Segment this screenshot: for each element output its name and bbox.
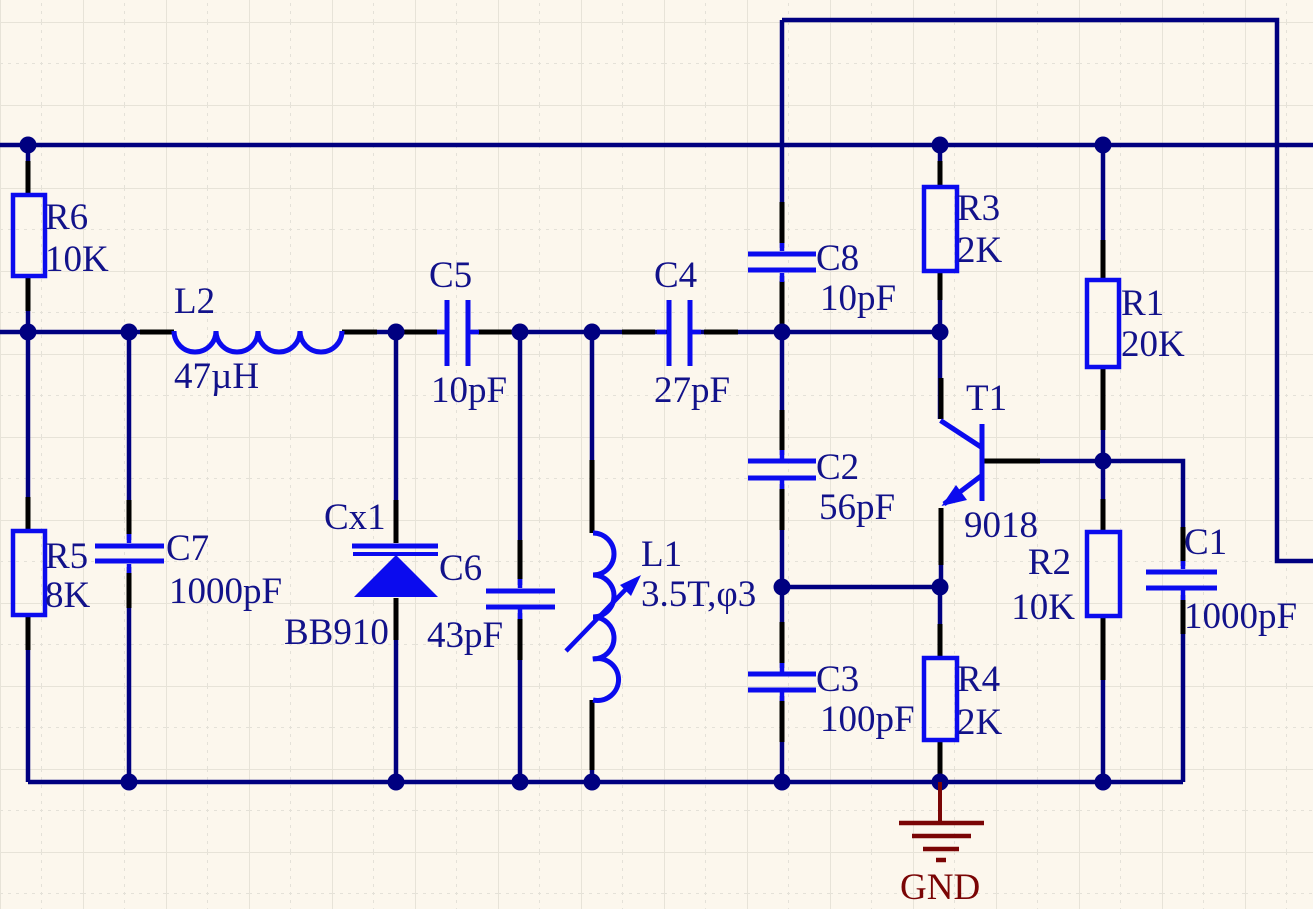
wire emitter row: [782, 585, 940, 590]
pin Cx1.2: [394, 598, 399, 640]
junction node (396,332): [388, 324, 405, 341]
transistor T1: [941, 378, 1039, 546]
resistor R4: [924, 658, 1003, 743]
pin L2.2: [342, 330, 377, 335]
pin R6.1: [26, 161, 31, 195]
pin C8.1: [780, 202, 785, 243]
junction node (129,332): [121, 324, 138, 341]
pin Cx1.1: [394, 500, 399, 543]
svg-text:BB910: BB910: [284, 612, 389, 653]
pin T1 emitter: [939, 508, 944, 565]
svg-text:C6: C6: [439, 548, 482, 589]
resistor R1: [1087, 280, 1185, 367]
pin L1.2: [590, 700, 595, 770]
svg-text:3.5T,φ3: 3.5T,φ3: [641, 574, 756, 615]
pin C3.2: [780, 701, 785, 742]
junction node (28,145): [20, 137, 37, 154]
svg-text:100pF: 100pF: [820, 699, 915, 740]
junction node (520,332): [512, 324, 529, 341]
pin C1.1: [1181, 527, 1186, 561]
svg-text:8K: 8K: [45, 575, 91, 616]
pin R5.2: [26, 615, 31, 650]
wire left vertical: [26, 145, 31, 782]
capacitor C4: [654, 255, 730, 411]
svg-text:10pF: 10pF: [431, 370, 507, 411]
pin C1.2: [1181, 600, 1186, 634]
wire top outer loop: [782, 20, 1313, 561]
pin C4.1: [622, 330, 655, 335]
pin segments (black): [28, 161, 1183, 778]
pin R3.1: [938, 161, 943, 187]
svg-text:R1: R1: [1121, 283, 1164, 324]
wire C1 branch: [1103, 461, 1183, 782]
svg-text:R6: R6: [45, 197, 88, 238]
svg-text:1000pF: 1000pF: [1184, 596, 1297, 637]
svg-text:C2: C2: [816, 447, 859, 488]
inductor L1 (variable): [566, 533, 756, 701]
svg-text:47µH: 47µH: [174, 356, 259, 397]
wire C8/C2/C3 vertical: [780, 20, 785, 782]
resistor R3: [924, 187, 1003, 271]
pin R2.2: [1101, 615, 1106, 680]
wire base to R1/R2 node: [984, 459, 1103, 464]
svg-text:Cx1: Cx1: [324, 497, 386, 538]
varactor diode Cx1: [284, 497, 438, 653]
wire R3/T1/R4 vertical: [940, 145, 941, 782]
svg-text:20K: 20K: [1121, 324, 1185, 365]
pin C8.2: [780, 281, 785, 327]
pin C6.1: [518, 540, 523, 579]
capacitor C1: [1146, 522, 1297, 637]
svg-text:L1: L1: [641, 534, 682, 575]
pin T1 base: [984, 459, 1040, 464]
capacitor C2: [748, 447, 895, 528]
wire top rail VCC: [0, 143, 1313, 148]
svg-text:R3: R3: [957, 188, 1000, 229]
junction node (940,782): [932, 774, 949, 791]
wire C6 vertical: [518, 332, 523, 782]
svg-text:10K: 10K: [1011, 587, 1075, 628]
pin C6.2: [518, 619, 523, 660]
junction node (592,332): [584, 324, 601, 341]
svg-text:10K: 10K: [45, 239, 109, 280]
svg-text:C5: C5: [429, 255, 472, 296]
svg-text:10pF: 10pF: [820, 278, 896, 319]
wire L1 vertical: [590, 332, 595, 782]
svg-text:2K: 2K: [957, 702, 1003, 743]
wire mid rail: [0, 330, 940, 335]
pin C4.2: [704, 330, 738, 335]
svg-text:C1: C1: [1184, 522, 1227, 563]
junction node (520,782): [512, 774, 529, 791]
svg-text:9018: 9018: [964, 505, 1038, 546]
svg-text:27pF: 27pF: [654, 370, 730, 411]
pin R4.2: [938, 740, 943, 778]
capacitor C3: [748, 659, 915, 740]
junction node (129,782): [121, 774, 138, 791]
capacitor C5: [429, 255, 507, 411]
svg-text:T1: T1: [966, 378, 1007, 419]
svg-text:C7: C7: [166, 528, 209, 569]
pin R2.1: [1101, 499, 1106, 533]
wire Cx1 vertical: [394, 332, 399, 782]
svg-text:C4: C4: [654, 255, 697, 296]
capacitor C8: [748, 238, 896, 319]
capacitor C7: [95, 528, 282, 612]
pin R3.2: [938, 271, 943, 300]
svg-text:C8: C8: [816, 238, 859, 279]
pin C3.1: [780, 622, 785, 663]
pin R1.1: [1101, 240, 1106, 280]
capacitor C6: [427, 548, 555, 656]
junction node (940,145): [932, 137, 949, 154]
junction node (940,332): [932, 324, 949, 341]
svg-text:2K: 2K: [957, 230, 1003, 271]
junction node (396,782): [388, 774, 405, 791]
svg-text:43pF: 43pF: [427, 615, 503, 656]
pin R4.1: [938, 624, 943, 658]
pin C7.2: [127, 573, 132, 608]
junction node (782,587): [774, 579, 791, 596]
inductor L2: [174, 281, 342, 397]
svg-text:C3: C3: [816, 659, 859, 700]
pin R6.2: [26, 276, 31, 311]
svg-text:GND: GND: [900, 867, 980, 908]
resistor R6: [13, 195, 109, 280]
pin R1.2: [1101, 367, 1106, 430]
wire bottom rail: [28, 780, 1183, 785]
pin C7.1: [127, 500, 132, 534]
junction node (1103,782): [1095, 774, 1112, 791]
pin T1 collector: [939, 378, 944, 419]
pin C5.1: [404, 330, 437, 335]
pin L2.1: [140, 330, 174, 335]
svg-text:R4: R4: [957, 659, 1000, 700]
svg-text:R2: R2: [1028, 542, 1071, 583]
junction node (1103,145): [1095, 137, 1112, 154]
junction node (782,782): [774, 774, 791, 791]
svg-text:L2: L2: [174, 281, 215, 322]
junction node (592,782): [584, 774, 601, 791]
resistor R5: [13, 531, 91, 616]
junction node (782,332): [774, 324, 791, 341]
pin C5.2: [478, 330, 512, 335]
junction node (28,332): [20, 324, 37, 341]
wire C7 vertical: [127, 332, 132, 782]
pin C2.1: [780, 410, 785, 450]
pin L1.1: [590, 460, 595, 533]
svg-text:1000pF: 1000pF: [169, 571, 282, 612]
resistor R2: [1011, 532, 1120, 628]
junction node (1103,461): [1095, 453, 1112, 470]
wire R1/R2 vertical: [1101, 145, 1106, 782]
ground: [899, 782, 984, 860]
junction node (940,587): [932, 579, 949, 596]
pin R5.1: [26, 497, 31, 531]
svg-text:56pF: 56pF: [819, 487, 895, 528]
pin C2.2: [780, 489, 785, 530]
svg-text:R5: R5: [45, 536, 88, 577]
